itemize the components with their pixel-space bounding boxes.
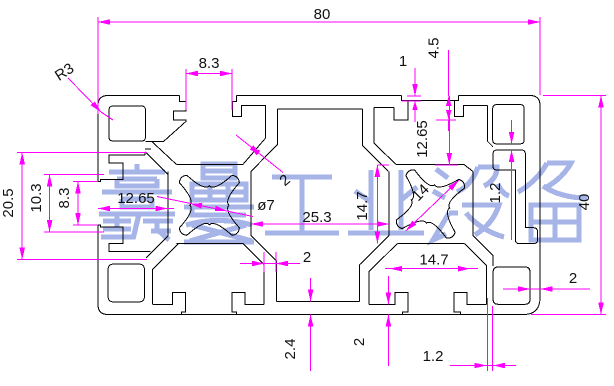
svg-text:14.7: 14.7 (419, 252, 448, 269)
svg-text:12.65: 12.65 (414, 120, 431, 158)
svg-text:80: 80 (314, 6, 331, 23)
svg-text:2: 2 (351, 338, 368, 346)
svg-text:ø7: ø7 (257, 197, 275, 214)
svg-text:10.3: 10.3 (28, 183, 45, 212)
svg-text:2: 2 (569, 270, 577, 287)
svg-text:1.2: 1.2 (423, 348, 444, 365)
svg-text:8.3: 8.3 (199, 55, 220, 72)
svg-text:25.3: 25.3 (302, 209, 331, 226)
svg-text:2.4: 2.4 (282, 339, 299, 360)
svg-text:2: 2 (303, 249, 311, 266)
svg-text:1.2: 1.2 (487, 183, 504, 204)
svg-text:20.5: 20.5 (0, 188, 17, 217)
svg-text:4.5: 4.5 (426, 38, 443, 59)
svg-text:1: 1 (399, 53, 407, 70)
svg-text:12.65: 12.65 (117, 190, 155, 207)
svg-text:8.3: 8.3 (56, 188, 73, 209)
svg-text:40: 40 (576, 194, 593, 211)
svg-text:14.7: 14.7 (354, 191, 371, 220)
